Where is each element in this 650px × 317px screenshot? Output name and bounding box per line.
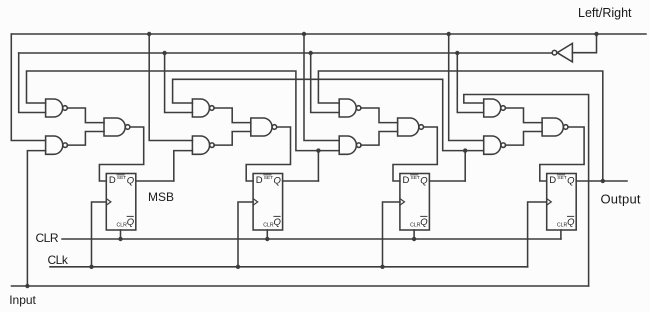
svg-text:Q: Q (127, 176, 135, 187)
svg-text:D: D (109, 175, 116, 186)
wire clock tap FF2 (238, 202, 253, 267)
node inverted tap stage1 (19, 53, 46, 113)
wire inverted-control rail (19, 52, 552, 54)
wire serial input riser to stage1 bottom gate (27, 151, 45, 286)
svg-text:SET: SET (557, 175, 566, 181)
D flip-flop FF3 (400, 174, 430, 231)
wire G1A output to combiner (67, 108, 104, 123)
node control tap stage2 (147, 32, 151, 36)
wire G2A output to combiner (214, 108, 251, 123)
wire Q3 output (429, 180, 465, 182)
wire clock tap FF1 (92, 202, 107, 267)
node junction Input tap on Input rail (25, 284, 29, 288)
svg-text:D: D (256, 175, 263, 186)
svg-text:Q: Q (274, 176, 282, 187)
node inverter input tap (594, 32, 598, 36)
node junction Q3 riser on stage4 bottom-gate input (463, 148, 467, 152)
nand gate G1B (shift-right enable stage1) (46, 136, 68, 154)
wire Q1 output (136, 180, 174, 182)
svg-text:CLR: CLR (117, 223, 128, 229)
wire clock tap FF3 (383, 202, 400, 267)
nand gate G4B (shift-right enable stage4) (484, 136, 506, 154)
nand gate G2A (shift-left enable stage2) (192, 99, 214, 117)
svg-text:SET: SET (264, 175, 273, 181)
wire Q1 riser to stage2 bottom gate (174, 151, 193, 181)
wire clear pin FF1 (120, 230, 122, 239)
wire G3B output to combiner (361, 132, 398, 146)
node inverted tap stage2 (162, 51, 166, 55)
wire G4B output to combiner (505, 132, 542, 146)
svg-text:CLR: CLR (557, 223, 568, 229)
wire CLk rail (50, 266, 528, 268)
node control tap stage3 (302, 32, 306, 36)
wire clear pin FF3 (413, 230, 415, 239)
wire clear pin FF4 (560, 230, 562, 239)
node inverted tap stage4 (455, 51, 459, 55)
svg-text:Input: Input (9, 293, 36, 307)
wire combiner output to FF3 D input (393, 127, 437, 181)
svg-text:CLR: CLR (263, 223, 274, 229)
nand gate G3A (shift-left enable stage3) (339, 99, 361, 117)
node junction Q4 feedback on Output line (601, 179, 605, 183)
node junction Q2 riser on stage3 bottom-gate input (316, 148, 320, 152)
nand gate G4C (combiner stage4) (542, 118, 568, 136)
wire Left/Right control rail (11, 33, 646, 35)
node inverted tap stage3 (309, 51, 313, 55)
wire combiner output to FF4 D input (540, 127, 584, 181)
wire combiner output to FF1 D input (99, 127, 143, 181)
svg-text:Q: Q (274, 217, 282, 228)
svg-text:Q: Q (420, 176, 428, 187)
wire G2B output to combiner (214, 132, 251, 146)
svg-text:CLR: CLR (36, 231, 59, 245)
svg-text:Q: Q (420, 217, 428, 228)
wire CLR rail (62, 238, 561, 240)
svg-text:SET: SET (411, 175, 420, 181)
node control tap stage4 (447, 32, 451, 36)
nand gate G3C (combiner stage3) (398, 118, 424, 136)
svg-text:Output: Output (601, 192, 641, 207)
svg-text:D: D (403, 175, 410, 186)
svg-text:SET: SET (117, 175, 126, 181)
wire net Q2: stage1 top-gate data line (27, 71, 340, 151)
wire G4A output to combiner (505, 108, 542, 123)
svg-text:Q: Q (567, 176, 575, 187)
svg-text:CLk: CLk (48, 253, 69, 267)
D flip-flop FF2 (253, 174, 283, 231)
svg-text:Q: Q (127, 217, 135, 228)
wire G3A output to combiner (361, 108, 398, 123)
wire net Input: stage4 top-gate data line (464, 95, 589, 287)
wire combiner output to FF2 D input (246, 127, 290, 181)
inverter U5 (Left/Right complement) (552, 43, 572, 62)
nand gate G1A (shift-left enable stage1) (46, 99, 68, 117)
svg-text:MSB: MSB (148, 190, 174, 204)
svg-text:Q: Q (567, 217, 575, 228)
nand gate G1C (combiner stage1) (104, 118, 130, 136)
node control tap stage1 (11, 34, 45, 141)
nand gate G4A (shift-left enable stage4) (484, 99, 506, 117)
wire net Q3: stage2 top-gate data line (173, 79, 484, 150)
nand gate G3B (shift-right enable stage3) (339, 136, 361, 154)
wire Q4 output to Output terminal (576, 180, 627, 182)
svg-text:CLR: CLR (410, 223, 421, 229)
svg-text:D: D (549, 175, 556, 186)
wire G1B output to combiner (67, 132, 104, 146)
wire clock tap FF4 (528, 202, 547, 267)
D flip-flop FF4 (547, 174, 577, 231)
wire net Q4: stage3 top-gate data line (318, 71, 602, 181)
svg-text:Left/Right: Left/Right (578, 6, 632, 20)
D flip-flop FF1 (106, 174, 136, 231)
wire serial Input rail (12, 285, 589, 287)
wire clear pin FF2 (266, 230, 268, 239)
nand gate G2B (shift-right enable stage2) (192, 136, 214, 154)
nand gate G2C (combiner stage2) (251, 118, 277, 136)
wire Q2 output (283, 180, 319, 182)
